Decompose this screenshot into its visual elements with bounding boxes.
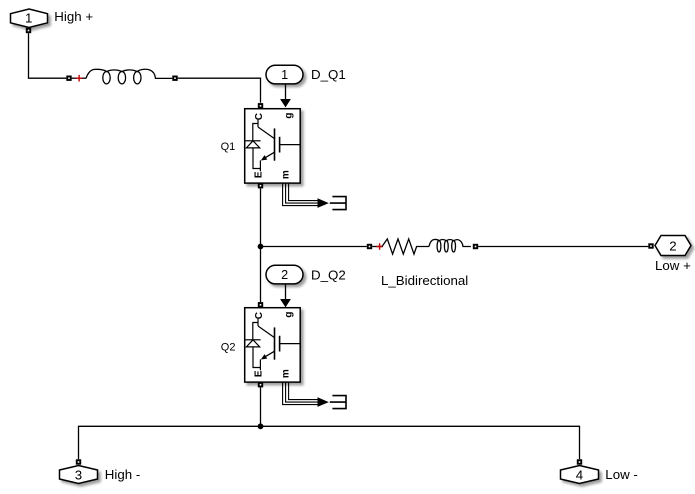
polarity marker + (L1) [76,75,83,82]
wire to resistor [372,246,382,248]
svg-text:1: 1 [25,10,32,25]
signal arrow D_Q2 to gate g [280,284,291,307]
port 1 (High +) [11,9,48,33]
junction node (bottom) [258,423,264,429]
pin E square (bottom) [258,382,263,387]
svg-text:2: 2 [281,268,288,282]
svg-text:D_Q2: D_Q2 [311,267,346,282]
input port oval D_Q1 [266,65,303,84]
IGBT block Q1 [245,103,301,188]
svg-text:3: 3 [75,468,82,483]
polarity marker + (L_Bidirectional) [376,243,383,250]
port 3 (High -) [60,459,98,483]
signal arrow D_Q1 to gate g [280,84,291,107]
RL branch right port [473,244,478,249]
svg-text:m: m [280,369,291,378]
emitter arrowhead Q1 [261,155,267,160]
svg-text:E: E [253,370,264,377]
wire Q1 emitter to Q2 collector [260,188,262,302]
svg-text:m: m [280,170,291,179]
measurement bus m of Q2 [283,383,318,405]
svg-text:High -: High - [105,467,140,482]
IGBT symbol Q1 [245,120,300,171]
svg-text:1: 1 [281,68,288,82]
svg-text:Low +: Low + [655,258,691,273]
junction node (midpoint) [258,244,264,250]
resistor zigzag (L_Bidirectional) [382,239,429,254]
inductor L1 coil [86,69,172,84]
wire junction to RL branch [261,246,367,248]
wire L1 to IGBT Q1 collector pin [178,78,261,103]
svg-text:E: E [253,171,264,178]
IGBT symbol Q2 [245,319,300,370]
svg-text:Low -: Low - [605,467,638,482]
inductor coil (L_Bidirectional) [429,239,471,252]
svg-text:2: 2 [669,239,676,254]
port 4 (Low -) [561,459,599,483]
wire RL branch to port 2 [478,246,648,248]
svg-text:C: C [254,113,265,120]
svg-text:Q2: Q2 [221,341,236,353]
terminator (Q2 m output) [330,396,346,409]
svg-text:4: 4 [576,468,583,483]
terminator (Q1 m output) [330,197,346,210]
wire Q2 emitter to bottom bus [260,387,262,426]
pin E square (bottom) [258,183,263,188]
wire L1 left port to coil [72,77,86,79]
measurement bus m of Q1 [283,184,318,206]
emitter arrowhead Q2 [261,354,267,359]
svg-text:L_Bidirectional: L_Bidirectional [381,273,468,288]
svg-text:g: g [283,312,294,318]
pin C square (top) [258,302,263,307]
RL branch L_Bidirectional left port [367,244,372,249]
svg-text:C: C [254,312,265,319]
inductor L1 left port [66,76,71,81]
svg-text:D_Q1: D_Q1 [311,67,346,82]
IGBT block Q2 [245,302,301,387]
svg-text:Q1: Q1 [221,141,236,153]
bus arrowhead Q2 m [318,397,329,407]
svg-text:g: g [283,113,294,119]
port 2 (Low +) [648,236,691,256]
svg-text:High +: High + [54,9,93,24]
bus arrowhead Q1 m [318,198,329,208]
pin C square (top) [258,103,263,108]
inductor L1 right port [172,76,177,81]
input port oval D_Q2 [266,265,303,284]
wire port1 to inductor L1 [29,33,67,78]
bottom bus wire [79,426,580,459]
